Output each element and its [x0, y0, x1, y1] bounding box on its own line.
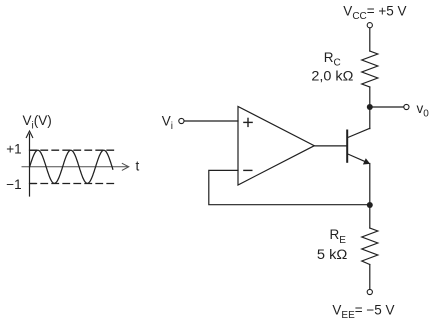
- collector junction node (dot): [367, 104, 373, 110]
- emitter junction node (dot): [367, 202, 373, 208]
- svg-text:VEE= −5 V: VEE= −5 V: [332, 303, 394, 321]
- op-amp - input sign: [244, 169, 252, 171]
- wire emitter node to resistor RE: [369, 205, 371, 228]
- wire VCC terminal to resistor RC: [369, 28, 371, 51]
- transistor Q1: [347, 128, 370, 164]
- svg-text:v0: v0: [417, 101, 430, 119]
- waveform graph t axis: [22, 163, 129, 170]
- svg-text:2,0 kΩ: 2,0 kΩ: [311, 68, 353, 83]
- svg-text:t: t: [136, 159, 140, 174]
- input sine waveform: [30, 150, 113, 183]
- svg-text:+1: +1: [6, 142, 21, 157]
- terminal VCC (open circle): [367, 23, 372, 28]
- feedback wire emitter node to op-amp - input: [209, 170, 370, 204]
- svg-text:RC: RC: [324, 50, 341, 69]
- wire junction to v0 terminal: [370, 106, 404, 108]
- wire op-amp output to transistor base: [314, 145, 346, 147]
- wire resistor RC to collector node: [369, 87, 371, 107]
- resistor RE zigzag: [362, 228, 378, 265]
- resistor RC zigzag: [362, 51, 378, 87]
- +1 axis tick: [30, 149, 36, 151]
- svg-text:Vi(V): Vi(V): [23, 113, 52, 131]
- +1 level dashed line: [30, 149, 114, 151]
- wire collector to junction node: [369, 107, 371, 129]
- svg-text:5 kΩ: 5 kΩ: [317, 247, 348, 262]
- svg-text:RE: RE: [330, 227, 347, 246]
- op-amp + input sign: [244, 118, 252, 126]
- wire resistor RE to VEE terminal: [369, 265, 371, 290]
- svg-text:VCC= +5 V: VCC= +5 V: [343, 4, 406, 23]
- terminal VEE (open circle): [367, 289, 372, 294]
- terminal Vi (open circle): [179, 118, 184, 123]
- svg-text:Vi: Vi: [162, 114, 173, 132]
- -1 axis tick: [30, 183, 36, 185]
- wire Vi terminal to op-amp + input: [184, 120, 238, 122]
- op-amp U1 triangle: [238, 107, 314, 186]
- waveform graph V axis: [26, 131, 32, 196]
- -1 level dashed line: [30, 183, 114, 185]
- terminal v0 (open circle): [404, 104, 409, 109]
- wire emitter to emitter node: [369, 164, 371, 206]
- svg-text:−1: −1: [6, 177, 21, 192]
